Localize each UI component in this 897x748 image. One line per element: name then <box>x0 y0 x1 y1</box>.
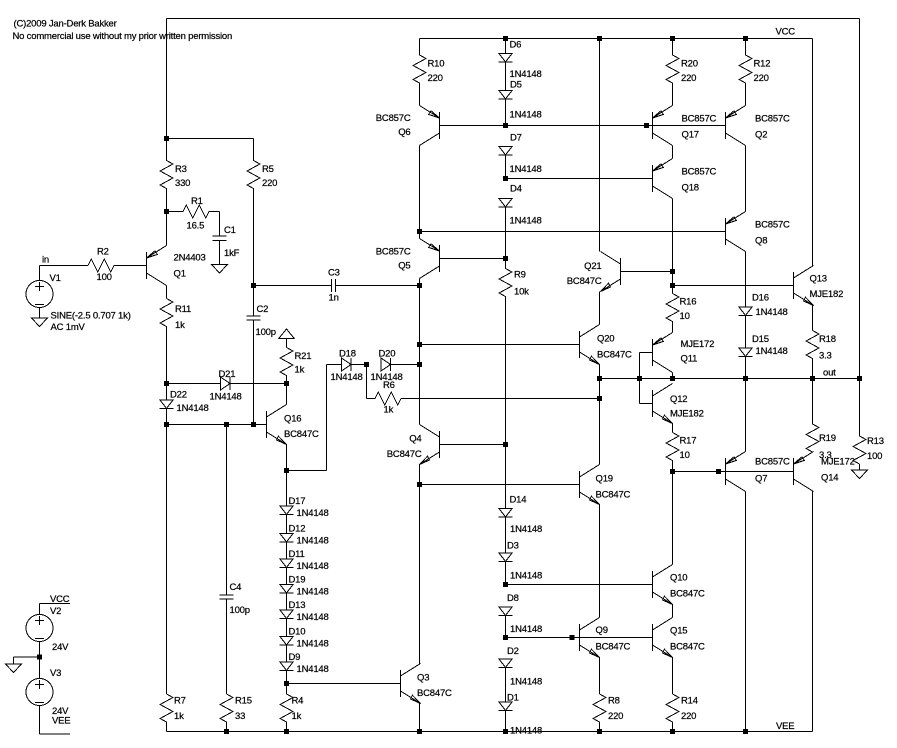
wire D14-D3 link <box>505 517 507 553</box>
transistor Q16 <box>267 405 287 445</box>
wire Q11/Q12 base bracket <box>639 353 641 404</box>
wire D22 top lead <box>166 384 168 401</box>
svg-text:Q10: Q10 <box>670 573 687 584</box>
wire input wire <box>40 265 89 267</box>
svg-text:D13: D13 <box>289 600 306 611</box>
svg-text:1N4148: 1N4148 <box>510 677 542 688</box>
wire V2 top lead <box>39 604 41 615</box>
svg-text:1N4148: 1N4148 <box>510 110 542 121</box>
diode D9 <box>280 662 294 671</box>
wire feedback top <box>167 18 860 20</box>
diode D22 <box>160 400 174 409</box>
transistor Q11 <box>653 333 673 373</box>
node D22/bias rail node <box>164 422 169 427</box>
wire C1 top lead <box>219 212 221 237</box>
wire H13 rail <box>420 484 580 486</box>
svg-text:V2: V2 <box>50 606 61 617</box>
wire Q7-Q14 base wire <box>726 471 794 473</box>
transistor Q6 <box>420 106 440 146</box>
wire VEE stub <box>40 733 71 735</box>
svg-text:C4: C4 <box>230 582 242 593</box>
svg-text:10: 10 <box>680 311 690 322</box>
svg-text:R16: R16 <box>680 297 697 308</box>
svg-text:1N4148: 1N4148 <box>756 307 788 318</box>
transistor Q5 <box>420 239 440 279</box>
node Q17 base join <box>644 123 649 128</box>
diode D8 <box>499 607 513 616</box>
diode D10 <box>280 637 294 646</box>
wire supply ground stub <box>14 656 40 658</box>
wire V3 bottom lead <box>39 706 41 735</box>
node D5/D7 node <box>503 123 508 128</box>
wire V3 top lead <box>39 657 41 679</box>
svg-text:R7: R7 <box>174 696 186 707</box>
svg-text:No commercial use without my p: No commercial use without my prior writt… <box>13 31 233 42</box>
wire H5 right segment <box>506 125 653 127</box>
node C4 tap <box>224 422 229 427</box>
svg-text:R18: R18 <box>819 334 836 345</box>
svg-text:BC847C: BC847C <box>670 589 705 600</box>
wire C1 ground lead <box>219 241 221 265</box>
svg-text:D3: D3 <box>507 541 519 552</box>
wire R6 left riser <box>366 365 368 399</box>
wire D7 bottom lead <box>505 155 507 179</box>
svg-text:BC857C: BC857C <box>376 247 411 258</box>
wire Q9 emitter down <box>599 658 601 695</box>
resistor R14 <box>666 694 679 732</box>
power arrow R21 <box>279 329 295 339</box>
wire Q10 emitter to Q15 <box>672 605 674 618</box>
svg-text:D17: D17 <box>289 496 306 507</box>
wire bias to D18 <box>287 470 327 472</box>
svg-text:BC847C: BC847C <box>596 490 631 501</box>
svg-text:D22: D22 <box>170 390 187 401</box>
svg-text:D18: D18 <box>339 349 356 360</box>
svg-text:1N4148: 1N4148 <box>297 612 329 623</box>
wire R5 feed <box>167 138 254 140</box>
wire Q7 collector drop <box>745 492 747 732</box>
wire D13 link <box>286 593 288 610</box>
wire VCC right riser <box>812 39 814 266</box>
wire out to R13 <box>813 378 860 380</box>
svg-text:C2: C2 <box>257 304 269 315</box>
wire K column to Q19 <box>599 379 601 465</box>
svg-text:1N4148: 1N4148 <box>297 587 329 598</box>
wire Q5 emitter stub <box>419 232 421 239</box>
svg-text:Q9: Q9 <box>596 625 608 636</box>
voltage source V3 <box>26 679 53 706</box>
resistor R10 <box>413 39 426 84</box>
svg-text:220: 220 <box>608 711 623 722</box>
svg-text:BC847C: BC847C <box>597 350 632 361</box>
svg-text:V3: V3 <box>50 668 61 679</box>
wire D9 link <box>286 645 288 662</box>
resistor R9 <box>499 259 512 445</box>
wire Q21 base wire <box>621 271 673 273</box>
svg-text:out: out <box>823 368 836 379</box>
wire D4 bottom lead <box>505 207 507 259</box>
wire D18-D20 link <box>351 364 367 366</box>
resistor R12 <box>739 39 752 84</box>
svg-text:MJE172: MJE172 <box>681 339 715 350</box>
svg-text:2N4403: 2N4403 <box>174 253 206 264</box>
svg-text:100p: 100p <box>230 605 250 616</box>
svg-text:330: 330 <box>175 178 190 189</box>
wire Q10 collector riser <box>672 472 674 565</box>
wire VEE rail <box>167 731 813 733</box>
node R5/C2/C3 node <box>251 283 256 288</box>
svg-text:R21: R21 <box>295 351 312 362</box>
svg-text:BC847C: BC847C <box>567 276 602 287</box>
wire Q4 emitter down <box>419 465 421 485</box>
svg-text:1k: 1k <box>175 320 185 331</box>
svg-text:Q1: Q1 <box>174 269 186 280</box>
transistor Q14 <box>794 452 814 492</box>
svg-text:BC857C: BC857C <box>682 114 717 125</box>
wire V2 bottom lead <box>39 642 41 658</box>
svg-text:1N4148: 1N4148 <box>510 524 542 535</box>
svg-text:BC847C: BC847C <box>387 449 422 460</box>
svg-text:VEE: VEE <box>52 716 70 727</box>
svg-text:100: 100 <box>867 451 882 462</box>
node VEE tap R14 <box>670 729 675 734</box>
svg-text:SINE(-2.5 0.707 1k): SINE(-2.5 0.707 1k) <box>51 311 131 322</box>
wire D20 cathode wire <box>391 364 420 366</box>
resistor R16 <box>666 294 679 333</box>
svg-text:D5: D5 <box>510 80 522 91</box>
node D20/main column node <box>417 362 422 367</box>
svg-text:Q13: Q13 <box>810 274 827 285</box>
svg-text:BC847C: BC847C <box>596 642 631 653</box>
wire Q3 emitter down <box>419 704 421 732</box>
wire R21 top stub <box>286 339 288 348</box>
svg-text:1N4148: 1N4148 <box>510 164 542 175</box>
resistor R4 <box>280 684 293 732</box>
svg-text:R6: R6 <box>383 380 395 391</box>
wire D3 bottom lead <box>505 562 507 585</box>
node out node <box>810 376 815 381</box>
node K column VCC tap <box>597 36 602 41</box>
wire Q13 emitter to R18 <box>812 306 814 331</box>
wire H6 rail <box>506 178 653 180</box>
node R3/R5 tap <box>164 136 169 141</box>
transistor Q2 <box>726 106 746 146</box>
svg-text:D9: D9 <box>289 652 301 663</box>
transistor Q17 <box>653 106 673 146</box>
wire R3 top feed <box>166 19 168 139</box>
svg-text:D10: D10 <box>289 627 306 638</box>
diode D3 <box>499 553 513 562</box>
wire Q11 base stub <box>640 352 653 354</box>
svg-text:R9: R9 <box>514 270 526 281</box>
wire D16-D15 link <box>745 316 747 349</box>
svg-text:D8: D8 <box>507 593 519 604</box>
svg-text:BC847C: BC847C <box>284 429 319 440</box>
svg-text:MJE182: MJE182 <box>670 409 704 420</box>
resistor R17 <box>666 433 679 472</box>
node R17/Q10 node <box>670 469 675 474</box>
svg-text:MJE172: MJE172 <box>821 457 855 468</box>
wire C4 top lead <box>226 425 228 596</box>
svg-text:1N4148: 1N4148 <box>297 536 329 547</box>
capacitor C3 <box>332 279 336 292</box>
wire R2 to Q1 base <box>116 265 147 267</box>
svg-text:C1: C1 <box>224 225 236 236</box>
wire Q5 base wire <box>440 258 506 260</box>
svg-text:220: 220 <box>262 178 277 189</box>
wire C4 bottom lead <box>226 599 228 694</box>
svg-text:220: 220 <box>681 711 696 722</box>
diode D15 <box>739 348 753 357</box>
svg-text:1N4148: 1N4148 <box>510 624 542 635</box>
svg-text:R4: R4 <box>292 696 304 707</box>
node VEE tap D1 <box>503 729 508 734</box>
wire Q14 collector drop <box>812 492 814 732</box>
svg-text:1k: 1k <box>174 711 184 722</box>
wire Q7 emitter riser <box>745 379 747 452</box>
wire D15 bottom lead <box>745 357 747 379</box>
svg-text:BC857C: BC857C <box>755 114 790 125</box>
diode D11 <box>280 559 294 568</box>
svg-text:1N4148: 1N4148 <box>756 346 788 357</box>
wire H9 rail <box>506 584 653 586</box>
wire main column to Q4 <box>419 365 421 425</box>
diode D16 <box>739 307 753 316</box>
transistor Q7 <box>726 452 746 492</box>
svg-text:R20: R20 <box>681 59 698 70</box>
svg-text:R3: R3 <box>175 164 187 175</box>
svg-text:1N4148: 1N4148 <box>331 372 363 383</box>
resistor R13 <box>853 379 866 465</box>
diode D21 <box>221 377 231 390</box>
svg-text:R14: R14 <box>681 696 698 707</box>
transistor Q9 <box>580 618 600 658</box>
svg-text:Q18: Q18 <box>682 183 699 194</box>
wire Q11 collector stub <box>672 373 674 379</box>
svg-text:Q7: Q7 <box>755 474 767 485</box>
node R12 VCC tap <box>743 36 748 41</box>
svg-text:D12: D12 <box>289 524 306 535</box>
node R9 top node <box>503 256 508 261</box>
svg-text:R19: R19 <box>819 433 836 444</box>
svg-text:D21: D21 <box>219 369 236 380</box>
node R6 node <box>597 396 602 401</box>
wire D10 link <box>286 619 288 637</box>
svg-text:V1: V1 <box>50 273 61 284</box>
svg-text:100: 100 <box>97 272 112 283</box>
svg-text:Q6: Q6 <box>398 127 410 138</box>
svg-text:R13: R13 <box>867 436 884 447</box>
svg-text:R12: R12 <box>754 59 771 70</box>
diode D14 <box>499 509 513 518</box>
transistor Q10 <box>653 565 673 605</box>
node supply mid node <box>37 655 42 660</box>
transistor Q19 <box>580 465 600 505</box>
wire D8 bottom lead <box>505 616 507 638</box>
svg-text:33: 33 <box>235 711 245 722</box>
wire Q6 collector down <box>419 146 421 232</box>
wire R12 to Q2 emitter <box>745 83 747 106</box>
svg-text:24V: 24V <box>52 642 69 653</box>
svg-text:BC857C: BC857C <box>755 220 790 231</box>
wire Q12 emitter to R17 <box>672 424 674 433</box>
svg-text:BC857C: BC857C <box>682 167 717 178</box>
wire Q1 emitter up <box>166 212 168 246</box>
wire Q7 base wire <box>719 471 726 473</box>
svg-text:D7: D7 <box>510 133 522 144</box>
wire R20 to Q17 emitter <box>672 83 674 106</box>
wire H10 rail <box>506 637 653 639</box>
resistor R6 <box>367 392 402 405</box>
svg-text:1kF: 1kF <box>224 248 240 259</box>
node D18/D20/R6 node <box>364 362 369 367</box>
wire D9 bottom lead <box>286 671 288 684</box>
svg-text:Q21: Q21 <box>584 261 601 272</box>
transistor Q3 <box>401 664 421 704</box>
wire VCC stub <box>40 603 71 605</box>
wire chain top lead <box>286 471 288 507</box>
svg-text:Q14: Q14 <box>821 473 838 484</box>
wire D22 bottom lead <box>166 409 168 425</box>
diode D6 <box>499 54 513 63</box>
voltage source V1 <box>26 281 53 308</box>
node R20 VCC tap <box>670 36 675 41</box>
svg-text:D4: D4 <box>510 184 522 195</box>
wire R9 to D14 <box>505 445 507 509</box>
wire K column drop <box>599 39 601 252</box>
wire R10 to Q6 emitter <box>419 83 421 106</box>
node R3/R1/Q1 emitter <box>164 209 169 214</box>
svg-text:1N4148: 1N4148 <box>297 508 329 519</box>
svg-text:220: 220 <box>428 73 443 84</box>
ground C1 ground <box>212 265 228 274</box>
wire Q19 emitter to Q9 <box>599 505 601 618</box>
node Q20 emitter node <box>597 376 602 381</box>
wire Q12 base stub <box>640 403 653 405</box>
svg-text:16.5: 16.5 <box>187 221 205 232</box>
svg-text:10k: 10k <box>514 287 529 298</box>
wire D6 top lead <box>505 39 507 54</box>
diode D12 <box>280 534 294 543</box>
node VEE tap R15 <box>224 729 229 734</box>
svg-text:D6: D6 <box>510 40 522 51</box>
svg-text:AC 1mV: AC 1mV <box>51 322 86 333</box>
svg-text:MJE182: MJE182 <box>810 289 844 300</box>
diode D5 <box>499 91 513 100</box>
diode D20 <box>381 358 391 371</box>
wire Q8 collector to D16 <box>745 252 747 308</box>
wire Q17-Q2 base wire <box>653 125 726 127</box>
node R9/Q4 base node <box>503 442 508 447</box>
node main column H3 tap <box>417 229 422 234</box>
wire D18 anode wire <box>327 364 342 366</box>
wire C2 bottom lead <box>253 320 255 425</box>
node D9/R4/Q3 base node <box>284 681 289 686</box>
ground V1 ground <box>32 318 48 327</box>
diode D2 <box>499 659 513 668</box>
wire Q2 collector to Q8 emitter <box>745 146 747 212</box>
transistor Q21 <box>601 252 621 292</box>
svg-text:R11: R11 <box>175 304 191 315</box>
svg-text:Q16: Q16 <box>284 414 301 425</box>
wire VCC rail <box>420 38 813 40</box>
svg-text:Q15: Q15 <box>670 626 687 637</box>
svg-text:Q11: Q11 <box>681 354 698 365</box>
diode D7 <box>499 147 513 156</box>
wire C2 top lead <box>253 286 255 317</box>
node Q16 emitter node <box>284 468 289 473</box>
ground R13 ground <box>852 470 868 479</box>
voltage source V2 <box>26 615 53 642</box>
wire main column low <box>419 345 421 365</box>
node H4 tap <box>417 342 422 347</box>
transistor Q8 <box>726 212 746 252</box>
node bracket node <box>637 376 642 381</box>
svg-text:Q12: Q12 <box>670 394 687 405</box>
wire Q13 base wire <box>673 285 794 287</box>
svg-text:R2: R2 <box>97 247 109 258</box>
node D8/D2 node <box>503 635 508 640</box>
diode D1 <box>499 702 513 711</box>
wire Q5 collector stub <box>419 279 421 286</box>
transistor Q18 <box>653 159 673 199</box>
svg-text:1N4148: 1N4148 <box>510 69 542 80</box>
node VEE tap R8 <box>597 729 602 734</box>
node D21/R21/Q16 collector node <box>284 381 289 386</box>
wire R13 ground lead <box>859 464 861 470</box>
wire H4 rail <box>420 344 580 346</box>
svg-text:in: in <box>42 255 49 266</box>
transistor Q1 <box>147 246 167 286</box>
node H10 join node <box>570 635 575 640</box>
node VEE tap R4 <box>284 729 289 734</box>
svg-text:1k: 1k <box>292 711 302 722</box>
svg-text:Q2: Q2 <box>755 130 767 141</box>
svg-text:10: 10 <box>680 450 690 461</box>
resistor R19 <box>806 379 819 453</box>
wire V1 top lead <box>39 266 41 281</box>
resistor R3 <box>160 139 173 212</box>
diode D13 <box>280 610 294 619</box>
svg-text:R5: R5 <box>262 164 274 175</box>
node D15/out rail node <box>743 376 748 381</box>
svg-text:100p: 100p <box>256 327 276 338</box>
svg-text:R8: R8 <box>608 696 620 707</box>
capacitor C2 <box>247 316 261 320</box>
wire supply ground drop <box>13 657 15 664</box>
node C2 tap <box>251 422 256 427</box>
svg-text:D16: D16 <box>752 293 769 304</box>
node Q21 base node <box>670 269 675 274</box>
wire Q16 collector up <box>286 384 288 405</box>
svg-text:Q5: Q5 <box>398 261 410 272</box>
diode D4 <box>499 199 513 208</box>
wire bias rail <box>167 424 267 426</box>
svg-text:1N4148: 1N4148 <box>510 216 542 227</box>
node D6 top node <box>503 36 508 41</box>
wire D11 link <box>286 542 288 559</box>
node D7/D4 node <box>503 176 508 181</box>
node Q7 base join <box>716 469 721 474</box>
wire D18 feed riser <box>326 365 328 471</box>
svg-text:D20: D20 <box>379 349 396 360</box>
svg-text:Q3: Q3 <box>417 673 429 684</box>
resistor R21 <box>280 348 293 384</box>
node C3/main column node <box>417 283 422 288</box>
wire Q21 emitter to Q20 <box>599 292 601 325</box>
svg-text:D2: D2 <box>507 646 519 657</box>
svg-text:D1: D1 <box>507 693 519 704</box>
